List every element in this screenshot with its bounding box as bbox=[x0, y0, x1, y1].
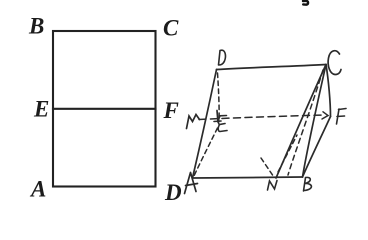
svg-text:B: B bbox=[28, 14, 44, 39]
left rectangle ABCD with midline EF (printed figure) bbox=[53, 31, 156, 187]
bottom edge A-B bbox=[193, 177, 303, 178]
svg-text:F: F bbox=[163, 98, 179, 123]
arrowhead at F end of dashed line bbox=[322, 112, 328, 119]
svg-text:A: A bbox=[29, 177, 46, 202]
right edge C-F bbox=[326, 65, 331, 117]
hand label A bbox=[185, 173, 198, 194]
edge C-N bbox=[276, 65, 326, 179]
top edge D-C bbox=[217, 65, 327, 70]
svg-text:D: D bbox=[164, 180, 182, 205]
dashed line M-F bbox=[199, 115, 324, 120]
hand label M bbox=[187, 115, 200, 129]
hand label B bbox=[304, 177, 312, 191]
short dashed N upward bbox=[278, 135, 297, 172]
tick mark at E crossing bbox=[217, 111, 218, 123]
midline EF bbox=[53, 108, 156, 110]
dashed line D-E bbox=[218, 73, 220, 122]
edge C-B bbox=[303, 65, 327, 178]
svg-text:E: E bbox=[33, 97, 49, 122]
dashed line E-A bbox=[194, 128, 218, 177]
left edge D-A bbox=[193, 70, 217, 179]
tick foot at E bbox=[214, 120, 221, 123]
hand label D bbox=[219, 50, 226, 65]
short dashed toward N bbox=[261, 158, 273, 175]
hand label F bbox=[337, 109, 347, 125]
clipped digit at top bbox=[303, 1, 308, 5]
rectangle outline B-C-D-A bbox=[53, 31, 156, 187]
right hand-drawn folded figure bbox=[193, 65, 331, 179]
edge F-B bbox=[303, 117, 331, 178]
dashed line C-to-bottom (between N and B) bbox=[288, 70, 323, 175]
hand label N bbox=[268, 181, 278, 191]
hand label E bbox=[218, 116, 227, 132]
svg-text:C: C bbox=[163, 16, 179, 41]
hand label C bbox=[328, 51, 341, 75]
